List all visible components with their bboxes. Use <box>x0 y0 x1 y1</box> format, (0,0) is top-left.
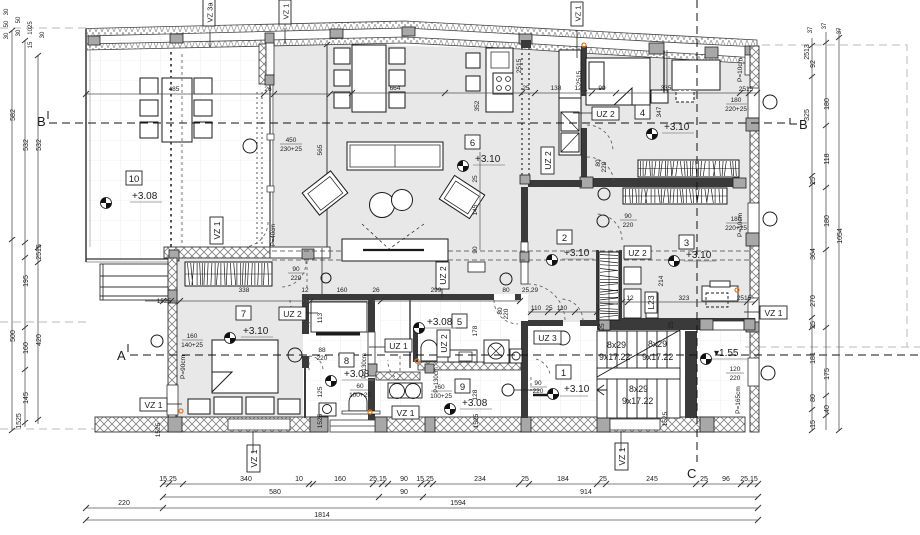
svg-text:1054: 1054 <box>837 228 844 244</box>
room2/3 wardrobe side walls <box>596 250 599 320</box>
wall living/room2 x=521 <box>521 187 528 242</box>
UZ/VZ door-window labels <box>140 107 787 419</box>
svg-text:90: 90 <box>534 380 542 387</box>
svg-text:120: 120 <box>730 366 741 373</box>
svg-text:60: 60 <box>356 383 364 390</box>
svg-text:96: 96 <box>722 476 730 483</box>
svg-text:220: 220 <box>623 222 634 229</box>
svg-text:220: 220 <box>730 375 741 382</box>
svg-text:220: 220 <box>291 275 302 282</box>
wall rooms2-3 bottom / above stairs <box>597 318 755 330</box>
svg-text:+3.08: +3.08 <box>132 191 158 202</box>
svg-text:220: 220 <box>533 388 544 395</box>
svg-text:100+25: 100+25 <box>349 392 371 399</box>
svg-text:180: 180 <box>731 97 742 104</box>
svg-text:UZ 2: UZ 2 <box>439 334 449 353</box>
stairs <box>597 330 680 418</box>
svg-text:160: 160 <box>187 333 198 340</box>
wall room4 / rooms2-3 <box>593 178 733 187</box>
bath5 toilet <box>421 340 522 363</box>
living left wall <box>324 42 330 258</box>
room number boxes <box>126 105 694 393</box>
wardrobe rooms2/3 vertical comb <box>599 252 619 320</box>
svg-text:582: 582 <box>10 109 17 121</box>
svg-text:UZ 3: UZ 3 <box>538 333 557 343</box>
terrace grid <box>88 33 272 261</box>
svg-text:914: 914 <box>580 489 592 496</box>
svg-text:338: 338 <box>239 287 250 294</box>
svg-text:145: 145 <box>472 204 479 215</box>
svg-text:VZ 1: VZ 1 <box>574 6 583 22</box>
svg-text:92: 92 <box>810 60 817 68</box>
svg-text:220: 220 <box>601 161 608 172</box>
wall corridor/hall x=521 lower <box>521 321 528 418</box>
svg-text:26: 26 <box>264 86 272 93</box>
svg-text:485: 485 <box>169 86 180 93</box>
svg-text:1814: 1814 <box>314 512 330 519</box>
svg-text:VZ 1: VZ 1 <box>212 221 222 239</box>
svg-text:25,15: 25,15 <box>740 476 758 483</box>
small rotated texts <box>155 58 744 437</box>
toilet nook stub wall bath5 <box>409 300 411 368</box>
elevation quarter symbols <box>101 129 712 415</box>
svg-text:214: 214 <box>658 275 665 286</box>
svg-text:220+25: 220+25 <box>725 225 747 232</box>
svg-text:90: 90 <box>400 476 408 483</box>
room8 closet <box>311 302 380 416</box>
bedroom7 left exterior wall <box>167 258 178 417</box>
left terrace wall <box>85 29 87 262</box>
svg-text:VZ 1: VZ 1 <box>282 4 291 20</box>
svg-text:234: 234 <box>474 476 486 483</box>
svg-text:P=165cm: P=165cm <box>735 386 742 414</box>
svg-text:UZ 2: UZ 2 <box>438 266 448 285</box>
svg-text:5: 5 <box>457 317 462 328</box>
hall1 boiler <box>533 394 559 397</box>
svg-text:12: 12 <box>574 85 582 92</box>
svg-text:270: 270 <box>810 295 817 307</box>
bed room4 <box>586 58 650 105</box>
svg-text:160: 160 <box>337 287 348 294</box>
svg-text:A: A <box>117 348 126 363</box>
svg-text:25: 25 <box>668 321 675 329</box>
svg-text:UZ 1: UZ 1 <box>389 341 408 351</box>
orange pivot dots <box>179 43 739 414</box>
svg-text:2: 2 <box>562 233 567 244</box>
svg-text:450: 450 <box>286 137 297 144</box>
svg-text:+3.10: +3.10 <box>564 248 590 259</box>
top exterior wall <box>86 21 757 75</box>
svg-text:90: 90 <box>292 266 300 273</box>
svg-text:220+25: 220+25 <box>725 106 747 113</box>
svg-text:VZ 1: VZ 1 <box>249 449 259 467</box>
neighbour outline dashed gray, left bottom <box>0 428 95 430</box>
svg-text:90: 90 <box>624 213 632 220</box>
svg-text:C: C <box>687 466 696 481</box>
svg-text:195: 195 <box>23 275 30 287</box>
svg-text:1525: 1525 <box>155 422 162 437</box>
svg-text:30: 30 <box>16 29 22 36</box>
svg-text:+3.08: +3.08 <box>427 317 453 328</box>
poufs <box>370 190 413 218</box>
svg-text:128: 128 <box>472 389 479 400</box>
svg-text:184: 184 <box>557 476 569 483</box>
svg-text:9x17.22: 9x17.22 <box>622 396 653 406</box>
svg-text:90: 90 <box>472 246 479 254</box>
svg-text:12: 12 <box>301 287 309 294</box>
svg-text:90: 90 <box>598 85 606 92</box>
svg-text:2515: 2515 <box>576 70 583 85</box>
svg-text:80: 80 <box>810 394 817 402</box>
svg-text:25: 25 <box>810 177 817 185</box>
svg-text:178: 178 <box>472 325 479 336</box>
floor fills <box>88 33 757 418</box>
bath5/9 divide <box>376 372 420 380</box>
bedroom 7 floor <box>176 258 330 300</box>
svg-text:1525: 1525 <box>16 413 23 429</box>
svg-text:P=130cm: P=130cm <box>362 353 368 379</box>
bench room3 top <box>651 50 720 103</box>
svg-text:1025: 1025 <box>28 21 34 35</box>
svg-text:25: 25 <box>472 175 479 183</box>
svg-text:UZ 2: UZ 2 <box>283 309 302 319</box>
svg-text:664: 664 <box>390 85 401 92</box>
svg-text:37: 37 <box>822 22 828 29</box>
svg-text:9x17.22: 9x17.22 <box>642 352 673 362</box>
svg-text:2515: 2515 <box>739 86 754 93</box>
stairwell right wall / entry left wall <box>685 331 697 418</box>
svg-text:230+25: 230+25 <box>280 146 302 153</box>
svg-text:30: 30 <box>4 8 10 15</box>
bed room7 <box>188 340 300 414</box>
svg-text:1525: 1525 <box>662 411 669 426</box>
svg-text:340: 340 <box>240 476 252 483</box>
svg-text:113: 113 <box>317 312 324 323</box>
leader lines top VZ labels <box>209 32 211 47</box>
svg-text:VZ 3a: VZ 3a <box>206 2 215 23</box>
svg-text:50: 50 <box>4 20 10 27</box>
svg-text:1525: 1525 <box>473 413 480 428</box>
sofa <box>347 142 443 170</box>
svg-text:15,25: 15,25 <box>416 476 434 483</box>
svg-text:532: 532 <box>36 139 43 151</box>
svg-text:90: 90 <box>400 489 408 496</box>
svg-text:40: 40 <box>824 405 831 413</box>
overhead dotted lines terrace <box>257 92 262 247</box>
svg-text:2515: 2515 <box>516 58 523 73</box>
living + kitchen + rooms 2,3,4 floor (gray) <box>272 42 757 331</box>
section line A <box>117 344 920 363</box>
kitchen island with hob <box>466 48 513 112</box>
armchair right <box>439 175 484 218</box>
svg-text:364: 364 <box>810 248 817 260</box>
room3 bench bottom <box>702 281 738 307</box>
exterior steps left <box>100 264 168 300</box>
section line C <box>687 0 697 481</box>
svg-text:30: 30 <box>40 31 46 38</box>
svg-text:160: 160 <box>334 476 346 483</box>
svg-text:88: 88 <box>318 347 326 354</box>
kitchen tall cabinets <box>559 50 581 155</box>
overhead beam dashed kitchen/living <box>522 48 529 176</box>
svg-text:220: 220 <box>317 355 328 362</box>
svg-text:26: 26 <box>372 287 380 294</box>
wardrobe room3 comb <box>623 188 727 204</box>
svg-text:2515: 2515 <box>737 295 752 302</box>
svg-text:420: 420 <box>36 334 43 346</box>
svg-text:9x17.22: 9x17.22 <box>599 352 630 362</box>
svg-text:25: 25 <box>522 85 530 92</box>
svg-text:180: 180 <box>731 216 742 223</box>
bottom exterior wall right segment <box>375 417 745 432</box>
svg-text:180: 180 <box>824 98 831 110</box>
survey circles <box>151 95 777 396</box>
svg-text:347: 347 <box>656 106 663 117</box>
grid over gray <box>272 42 757 331</box>
svg-text:118: 118 <box>824 153 831 164</box>
svg-text:2513: 2513 <box>804 44 811 60</box>
wall room7/room8 <box>302 300 309 334</box>
svg-text:50: 50 <box>16 16 22 23</box>
svg-text:25,29: 25,29 <box>522 287 539 294</box>
left dimension chains <box>9 28 41 433</box>
svg-text:8x29: 8x29 <box>629 384 648 394</box>
bath9 double sink <box>388 383 422 399</box>
svg-text:30: 30 <box>4 32 10 39</box>
svg-text:8x29: 8x29 <box>607 340 626 350</box>
svg-text:10: 10 <box>295 476 303 483</box>
interior dimension lines <box>83 90 760 315</box>
svg-text:25,15: 25,15 <box>369 476 387 483</box>
svg-text:25: 25 <box>599 323 606 331</box>
svg-text:145: 145 <box>23 392 30 404</box>
svg-text:323: 323 <box>679 295 690 302</box>
wall kitchen bottom <box>528 180 582 187</box>
svg-text:15: 15 <box>810 420 817 428</box>
svg-text:335: 335 <box>661 85 672 92</box>
dining table terrace <box>140 78 212 142</box>
interior walls <box>302 40 755 420</box>
svg-text:245: 245 <box>646 476 658 483</box>
svg-text:500: 500 <box>10 330 17 342</box>
svg-text:7: 7 <box>241 309 246 320</box>
svg-text:3: 3 <box>684 238 689 249</box>
stair labels <box>599 339 673 406</box>
small dim texts <box>181 97 747 400</box>
svg-text:9: 9 <box>460 382 465 393</box>
wardrobe room7 comb <box>185 262 272 286</box>
svg-text:125: 125 <box>317 386 324 397</box>
svg-text:VZ 1: VZ 1 <box>145 400 163 410</box>
elevation labels with underline <box>130 122 748 409</box>
overhead dotted lines over table <box>171 52 182 247</box>
svg-text:25: 25 <box>810 321 817 329</box>
svg-text:25: 25 <box>700 476 708 483</box>
svg-text:1525: 1525 <box>317 413 324 428</box>
svg-text:175: 175 <box>824 368 831 380</box>
neighbour outline dashed gray, left middle <box>0 321 86 323</box>
svg-text:8: 8 <box>344 356 349 367</box>
columns in top wall <box>88 36 100 45</box>
svg-text:▾1.55: ▾1.55 <box>714 348 739 359</box>
svg-text:565: 565 <box>317 144 324 155</box>
bath floors white grid <box>309 300 368 418</box>
neighbour outline dashed gray, right <box>762 45 907 347</box>
svg-text:140+25: 140+25 <box>181 342 203 349</box>
section line B-B <box>37 111 808 132</box>
svg-text:6: 6 <box>470 138 475 149</box>
svg-text:VZ 1: VZ 1 <box>397 408 415 418</box>
kitchen back wall <box>581 46 587 96</box>
svg-text:VZ 1: VZ 1 <box>765 308 783 318</box>
wardrobe room4 comb <box>638 160 739 177</box>
svg-text:P=10cm: P=10cm <box>737 58 744 82</box>
neighbour outline dashed gray, left top <box>0 27 86 29</box>
bottom exterior wall left segment <box>95 417 328 432</box>
svg-text:352: 352 <box>474 100 481 111</box>
right exterior wall <box>746 46 759 432</box>
svg-text:60: 60 <box>437 384 445 391</box>
svg-text:25: 25 <box>521 476 529 483</box>
svg-text:220: 220 <box>503 308 510 319</box>
svg-text:UZ 2: UZ 2 <box>596 109 615 119</box>
svg-text:2515: 2515 <box>36 244 43 260</box>
svg-text:+3.10: +3.10 <box>243 326 269 337</box>
bottom dimension chains <box>83 481 761 523</box>
dining table living <box>334 45 405 112</box>
svg-text:+3.10: +3.10 <box>564 384 590 395</box>
svg-text:580: 580 <box>269 489 281 496</box>
svg-text:P=90cm: P=90cm <box>180 355 187 379</box>
room2 cupboards <box>624 267 658 318</box>
wall room2 / hall1 <box>528 320 563 326</box>
terrace bottom wall <box>86 247 330 262</box>
svg-text:325: 325 <box>804 109 811 121</box>
svg-text:12: 12 <box>626 295 634 302</box>
svg-text:160: 160 <box>23 342 30 354</box>
svg-text:180: 180 <box>824 215 831 227</box>
svg-text:532: 532 <box>23 139 30 151</box>
svg-text:UZ 2: UZ 2 <box>628 248 647 258</box>
armchair left <box>302 171 348 215</box>
right dimension chains <box>809 28 842 433</box>
svg-text:25: 25 <box>599 476 607 483</box>
svg-text:8x29: 8x29 <box>648 339 667 349</box>
svg-text:L23: L23 <box>646 295 656 309</box>
svg-text:10: 10 <box>129 174 140 185</box>
svg-text:37: 37 <box>837 27 843 34</box>
svg-text:138: 138 <box>551 85 562 92</box>
svg-text:15,25: 15,25 <box>159 476 177 483</box>
overhead gallery edge dashed lines <box>272 251 750 260</box>
svg-text:1: 1 <box>561 368 566 379</box>
room8 right wall <box>368 298 375 332</box>
svg-text:VZ 1: VZ 1 <box>617 447 627 465</box>
entrance porch bottom gap <box>330 420 375 432</box>
svg-text:100+25: 100+25 <box>430 393 452 400</box>
door arcs <box>243 125 622 391</box>
terrace right glass wall <box>259 33 274 247</box>
rotated UZ/VZ labels <box>203 0 657 472</box>
svg-text:P=40cm: P=40cm <box>271 224 277 246</box>
svg-text:37: 37 <box>808 26 814 33</box>
svg-text:181: 181 <box>810 352 817 364</box>
svg-text:+3.10: +3.10 <box>664 122 690 133</box>
svg-text:299: 299 <box>431 287 442 294</box>
svg-text:1525: 1525 <box>157 298 172 305</box>
svg-text:UZ 2: UZ 2 <box>543 151 553 170</box>
svg-text:+3.10: +3.10 <box>475 154 501 165</box>
svg-text:220: 220 <box>118 500 130 507</box>
tv cabinet <box>342 224 485 272</box>
svg-text:1594: 1594 <box>450 500 466 507</box>
corridor bottom wall <box>302 294 494 300</box>
svg-text:+3.10: +3.10 <box>686 250 712 261</box>
svg-text:4: 4 <box>640 108 645 119</box>
svg-text:15: 15 <box>28 41 34 48</box>
svg-text:80: 80 <box>502 287 510 294</box>
